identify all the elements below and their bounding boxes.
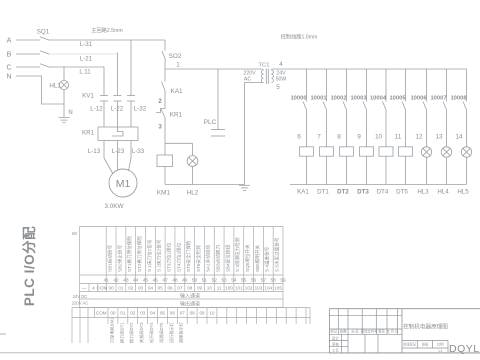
title block row lines [329,315,402,317]
svg-text:60: 60 [72,231,78,236]
svg-text:10002: 10002 [330,96,346,102]
svg-text:07: 07 [177,286,183,291]
svg-text:8: 8 [337,134,341,141]
svg-text:10: 10 [207,286,213,291]
wire branch to HL2 [165,142,193,144]
svg-text:05: 05 [158,286,164,291]
svg-text:HL1: HL1 [49,83,61,90]
svg-text:控制机电器原理图: 控制机电器原理图 [403,323,448,331]
wire HL2 bottom [192,166,194,184]
table outline horizontal lines [80,226,284,228]
wire phase A left [16,39,40,41]
svg-text:46: 46 [153,278,159,284]
svg-text:ST1换刀原位保险: ST1换刀原位保险 [126,236,133,272]
lamp HL3 [421,147,431,157]
wire branch 10007 bottom [446,157,448,184]
svg-text:10008: 10008 [450,96,467,102]
wire branch 10001 middle [326,111,328,147]
wire KA1 to KR1 [164,92,166,109]
svg-text:09: 09 [197,286,203,291]
svg-text:DT3: DT3 [357,189,369,196]
svg-text:12: 12 [415,134,423,141]
wire output branch 10001 top [326,69,328,102]
wire branch 10005 bottom [405,156,407,184]
svg-text:13: 13 [435,134,443,141]
contact branch 10008 [463,102,467,111]
svg-text:审核: 审核 [332,342,339,347]
svg-text:1:1: 1:1 [438,349,443,353]
svg-text:KV1: KV1 [82,93,94,100]
svg-text:刀架电机KM1: 刀架电机KM1 [108,317,115,343]
svg-text:10: 10 [209,311,215,316]
svg-text:M1: M1 [116,178,131,190]
wire phase B [49,53,118,55]
svg-text:SB2停止信号: SB2停止信号 [116,245,123,272]
svg-text:53: 53 [221,278,227,284]
svg-text:54: 54 [231,278,237,284]
svg-text:ST6安全检测: ST6安全检测 [195,245,202,272]
svg-text:09: 09 [199,311,205,316]
wire KA1 top [164,69,166,82]
wire secondary bus top [272,68,467,70]
svg-text:100: 100 [225,286,233,291]
svg-text:10006: 10006 [410,96,427,102]
svg-text:DT1: DT1 [317,189,329,196]
svg-text:01: 01 [120,311,126,316]
wire motor lead 1 [104,141,113,175]
ground main [239,184,250,186]
svg-text:N: N [68,110,72,116]
svg-text:10: 10 [375,134,383,141]
svg-text:标记: 标记 [330,328,337,333]
svg-text:S 4温度信号: S 4温度信号 [264,246,271,272]
connector KV1 pole 2 [114,95,122,97]
svg-text:104: 104 [264,286,272,291]
svg-text:N: N [6,74,11,81]
svg-text:KA1: KA1 [297,189,309,196]
title block left column verticals [341,334,343,353]
svg-text:57: 57 [261,278,267,284]
svg-text:COM: COM [96,311,107,316]
relay coil DT5 [399,147,413,156]
wire HL1 top [63,67,65,81]
connector KV1 pole 3 [127,95,135,97]
wire motor lead 2 [117,141,119,171]
table output column stub lines [107,318,109,325]
relay coil DT1 [320,147,334,156]
svg-text:50: 50 [192,278,198,284]
svg-text:SO2: SO2 [169,53,182,60]
svg-text:DT5: DT5 [396,189,408,196]
svg-text:主回路2.5mm: 主回路2.5mm [91,26,122,34]
wire N [16,76,64,104]
svg-text:HL2: HL2 [187,190,199,197]
wire branch 10002 middle [346,111,348,147]
svg-text:L-21: L-21 [80,56,93,63]
motor M1 [109,169,137,197]
svg-text:44: 44 [133,278,139,284]
lamp HL5 [461,147,471,157]
switch SQ1 pole C [40,64,50,67]
svg-text:11: 11 [395,134,402,141]
svg-text:43: 43 [123,278,129,284]
svg-text:COM: COM [97,286,108,291]
svg-text:02: 02 [130,311,136,316]
wire KV1 pole 3 to KR1 [130,101,132,127]
svg-text:L-32: L-32 [134,106,147,113]
svg-text:S 2床刀位2信号: S 2床刀位2信号 [156,239,163,272]
svg-text:06: 06 [167,286,173,291]
contact branch 10001 [323,102,327,111]
svg-text:01: 01 [118,286,124,291]
relay coil KA1 [300,147,314,156]
svg-text:润滑阀DT5: 润滑阀DT5 [158,322,165,343]
svg-text:S 5水泵过载信号: S 5水泵过载信号 [274,237,281,272]
svg-text:C: C [6,65,11,72]
wire PLC branch [217,69,219,130]
relay coil DT4 [379,147,393,156]
table output address row [72,307,310,309]
svg-text:A: A [7,38,12,45]
svg-text:输入通道: 输入通道 [180,293,200,300]
svg-text:55: 55 [241,278,247,284]
svg-text:控制线路1.0mm: 控制线路1.0mm [281,33,318,41]
wire output branch 10004 top [385,69,387,102]
svg-text:HL5: HL5 [457,189,469,196]
svg-text:08: 08 [187,286,193,291]
wire KV1 pole 2 to KR1 [117,101,119,127]
svg-text:AC: AC [244,77,251,83]
title block outline [329,308,480,310]
svg-text:ST4刀位2限位: ST4刀位2限位 [175,242,182,272]
svg-text:设计: 设计 [332,335,339,340]
wire branch 10000 bottom [306,156,308,184]
wire KM1 coil top [164,143,166,155]
title block mid/right divider [401,309,403,353]
transformer TC1 core [265,69,267,85]
wire output branch 10003 top [366,69,368,102]
wire output bus bottom [290,184,467,186]
contact branch 10003 [363,102,367,111]
svg-text:质量: 质量 [422,342,429,347]
wire control return [165,184,245,186]
svg-text:10003: 10003 [350,96,367,102]
svg-text:10004: 10004 [370,96,387,102]
svg-text:阶段标记: 阶段标记 [403,342,417,347]
svg-text:51: 51 [202,278,208,284]
svg-text:更改文件号: 更改文件号 [361,328,379,333]
title block top grid verticals [337,309,339,335]
wire SO2 to node1 [164,60,166,69]
wire TC1 secondary top [270,69,273,70]
svg-text:PLC I/O分配: PLC I/O分配 [22,226,37,306]
svg-text:年 月 日: 年 月 日 [386,328,398,333]
wire KM1 coil bottom [164,167,166,185]
contact branch 10002 [343,102,347,111]
svg-text:48: 48 [172,278,178,284]
svg-text:24V DC: 24V DC [73,294,88,299]
svg-text:105: 105 [274,286,282,291]
svg-text:L-22: L-22 [111,106,124,113]
contact branch 10006 [423,102,427,111]
svg-text:07: 07 [180,311,186,316]
svg-text:KR1: KR1 [82,130,95,137]
svg-text:TC1: TC1 [259,63,270,69]
svg-text:DQYL-1: DQYL-1 [449,343,480,355]
table tall header verticals [79,227,81,308]
svg-text:松开阀DT4: 松开阀DT4 [148,322,155,343]
svg-text:ST3刀位1限位: ST3刀位1限位 [165,242,172,272]
svg-text:换刀阀DT2: 换刀阀DT2 [128,322,135,343]
wire output branch 10006 top [426,69,428,102]
svg-text:L-23: L-23 [112,148,125,155]
svg-text:ST2换刀到位保险: ST2换刀到位保险 [136,236,143,272]
svg-text:换刀阀DT1: 换刀阀DT1 [118,322,125,343]
svg-text:10005: 10005 [389,96,406,102]
wire L-11 drop [103,67,105,96]
contact branch 10005 [402,102,406,111]
wire branch 10000 middle [306,111,308,147]
contact KR1 thermal NC [156,109,165,113]
wire branch 10003 middle [366,111,368,147]
wire branch 10008 bottom [466,157,468,184]
svg-text:S 3润滑压力检测: S 3润滑压力检测 [234,237,241,272]
svg-text:04: 04 [150,311,156,316]
svg-text:7: 7 [317,134,321,141]
svg-text:3: 3 [158,124,162,131]
svg-text:L 11: L 11 [79,69,91,76]
svg-text:故障指示灯: 故障指示灯 [178,321,185,343]
wire HL1 bottom [63,90,65,117]
svg-text:PLC: PLC [204,119,217,126]
svg-text:2: 2 [158,98,162,105]
wire phase A to SO2 corner [49,39,165,41]
wire branch 10006 middle [426,111,428,147]
svg-text:1: 1 [176,62,180,69]
coil KM1 [157,155,173,167]
transformer TC1 primary winding [261,70,263,83]
contact branch 10007 [443,102,447,111]
ground below HL1 [59,117,70,119]
svg-text:分 区: 分 区 [351,328,359,333]
wire output branch 10005 top [405,69,407,102]
table left long column lines [71,318,73,344]
svg-text:SB3点动换刀: SB3点动换刀 [215,245,222,272]
lamp HL1 [59,80,68,89]
svg-text:04: 04 [148,286,154,291]
svg-text:6: 6 [297,134,301,141]
svg-text:50W: 50W [276,77,287,83]
svg-text:DT2: DT2 [337,189,349,196]
svg-text:9: 9 [357,134,361,141]
svg-text:工艺: 工艺 [332,348,339,353]
wire output branch 10007 top [446,69,448,102]
relay coil DT3 [360,147,374,156]
title block stage row [402,340,448,342]
wire output branch 10000 top [306,69,308,102]
svg-text:47: 47 [162,278,168,284]
svg-text:KR1: KR1 [170,112,183,119]
wire KR1 to node3 [164,119,166,144]
switch SQ1 pole A [40,37,50,40]
svg-text:运行指示灯: 运行指示灯 [168,321,175,343]
connector KV1 pole 1 [100,95,108,97]
wire output branch 10002 top [346,69,348,102]
svg-text:58: 58 [271,278,277,284]
wire branch 10003 bottom [366,156,368,184]
wire branch 10001 bottom [326,156,328,184]
svg-text:ST5安全门保险: ST5安全门保险 [185,240,192,272]
svg-text:02: 02 [128,286,134,291]
svg-text:102: 102 [245,286,253,291]
svg-text:4: 4 [92,286,95,291]
wire branch 10007 middle [446,111,448,147]
svg-text:SB5照明开关: SB5照明开关 [254,245,261,272]
svg-text:HL3: HL3 [417,189,429,196]
relay coil DT2 [340,147,354,156]
svg-text:220V AC: 220V AC [72,301,89,306]
svg-text:L-12: L-12 [90,106,103,113]
svg-text:处数: 处数 [340,328,347,333]
svg-text:00: 00 [109,286,115,291]
svg-text:42: 42 [113,278,119,284]
wire L-21 drop [117,53,119,96]
lamp HL4 [441,147,451,157]
svg-text:输出通道: 输出通道 [180,301,200,308]
svg-text:10001: 10001 [310,96,327,102]
svg-text:SQ1: SQ1 [37,29,50,36]
svg-text:比例: 比例 [437,342,443,347]
svg-text:06: 06 [170,311,176,316]
wire phase B left [16,53,40,55]
svg-text:08: 08 [190,311,196,316]
svg-text:14: 14 [455,134,463,141]
svg-text:52: 52 [212,278,218,284]
fold mark tick [0,333,6,335]
svg-text:5: 5 [276,84,280,91]
wire phase C left [16,66,40,68]
svg-text:DT4: DT4 [377,189,389,196]
sheet bottom border [0,352,480,354]
svg-text:L-31: L-31 [80,41,93,48]
svg-text:KM1: KM1 [157,190,171,197]
wire TC1 primary bottom to ground leg [245,83,264,185]
svg-text:103: 103 [255,286,263,291]
svg-text:10000: 10000 [290,96,306,102]
wire TC1 primary top [263,69,264,70]
svg-text:03: 03 [140,311,146,316]
wire branch 10006 bottom [426,157,428,184]
connector PLC [211,129,225,131]
svg-text:101: 101 [235,286,243,291]
wire branch 10002 bottom [346,156,348,184]
contact KA1 [162,82,166,92]
wire control bus top left [165,68,263,70]
svg-text:45: 45 [143,278,149,284]
svg-text:HL4: HL4 [437,189,449,196]
wire output branch 10008 top [466,69,468,102]
svg-text:SA1手动自动: SA1手动自动 [205,245,212,272]
svg-text:03: 03 [138,286,144,291]
svg-text:11: 11 [217,286,222,291]
svg-text:签名: 签名 [378,328,385,333]
switch SO2 [162,51,166,60]
wire motor lead 3 [129,141,132,172]
table left small column verticals [88,284,90,292]
svg-text:41: 41 [104,278,110,284]
wire branch 10005 middle [405,111,407,147]
transformer TC1 secondary winding [271,70,273,83]
wire branch 10004 bottom [385,156,387,184]
svg-text:L-13: L-13 [88,148,101,155]
wire branch 10008 middle [466,111,468,147]
wire L-31 drop [130,40,132,96]
wire KV1 pole 1 to KR1 [103,101,105,127]
wire A corner down to SO2 [164,40,166,51]
svg-text:SB4复位按钮: SB4复位按钮 [224,245,231,272]
svg-text:3.0KW: 3.0KW [104,203,124,210]
svg-text:05: 05 [160,311,166,316]
svg-text:SQ5液位开关: SQ5液位开关 [244,244,251,272]
svg-text:10007: 10007 [430,96,446,102]
wire phase C [49,66,104,68]
svg-text:4: 4 [279,61,283,68]
thermal relay KR1 box [98,127,138,141]
wire HL2 top [192,143,194,155]
svg-text:夹紧阀DT3: 夹紧阀DT3 [138,322,145,343]
svg-text:L-33: L-33 [132,148,145,155]
svg-text:S 1床刀位1信号: S 1床刀位1信号 [146,239,153,272]
lamp HL2 [187,156,198,167]
svg-text:59: 59 [280,278,286,284]
svg-text:B: B [7,52,12,59]
contact branch 10000 [303,102,307,111]
svg-text:00: 00 [110,311,116,316]
svg-text:56: 56 [251,278,257,284]
switch SQ1 pole B [40,51,50,54]
svg-text:—: — [82,286,87,291]
contact branch 10004 [383,102,387,111]
svg-text:49: 49 [182,278,188,284]
wire branch 10004 middle [385,111,387,147]
svg-text:KA1: KA1 [170,88,183,95]
KR1 heater element jog [112,127,123,136]
svg-text:SB1起动信号: SB1起动信号 [107,245,114,272]
